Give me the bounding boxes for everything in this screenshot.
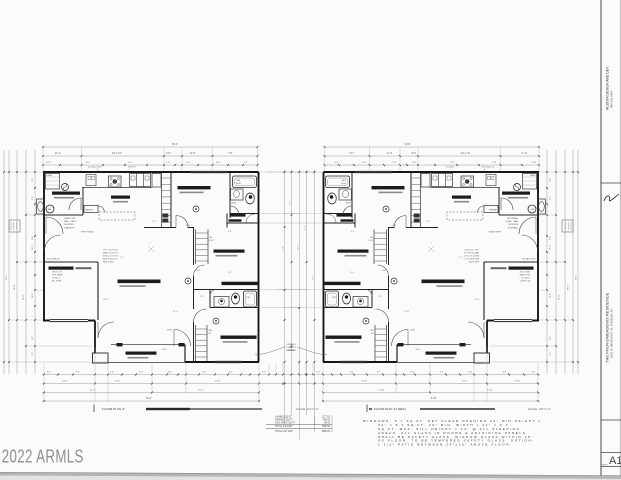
svg-text:© 2022 ARMLS: © 2022 ARMLS	[0, 446, 84, 467]
svg-text:3'-0": 3'-0"	[262, 372, 266, 374]
svg-text:12'-4": 12'-4"	[32, 245, 34, 250]
svg-text:5'-6": 5'-6"	[290, 201, 292, 205]
svg-text:5'-2": 5'-2"	[120, 257, 124, 259]
svg-text:LIVABLE SQ.FT.: LIVABLE SQ.FT.	[275, 416, 292, 419]
svg-text:45'-4": 45'-4"	[146, 398, 152, 400]
svg-text:COV. PATIO SQ.FT.: COV. PATIO SQ.FT.	[275, 421, 296, 424]
svg-text:2'-8": 2'-8"	[166, 162, 170, 164]
svg-text:A1: A1	[609, 455, 621, 467]
svg-text:PANTRY: PANTRY	[86, 208, 95, 211]
svg-text:7'-8": 7'-8"	[228, 153, 233, 155]
svg-text:14'-6": 14'-6"	[173, 311, 178, 313]
svg-text:3'-1": 3'-1"	[244, 162, 248, 164]
svg-text:18'-0": 18'-0"	[103, 299, 108, 301]
svg-text:4'-4": 4'-4"	[228, 272, 232, 274]
svg-text:19'-0": 19'-0"	[297, 245, 299, 250]
svg-text:9'-8": 9'-8"	[32, 236, 34, 240]
svg-text:29'-8": 29'-8"	[23, 294, 25, 300]
svg-text:W/UPPER: W/UPPER	[64, 224, 74, 226]
svg-text:5'-4": 5'-4"	[202, 372, 206, 374]
svg-text:LIN: LIN	[209, 237, 213, 239]
svg-text:PREP SPACE: PREP SPACE	[81, 231, 94, 234]
svg-text:8122 W. MEADOWS LN. PHOENIX, A: 8122 W. MEADOWS LN. PHOENIX, AZ	[610, 308, 614, 358]
svg-text:84.00: 84.00	[324, 422, 330, 424]
svg-text:45'-4": 45'-4"	[6, 274, 8, 280]
svg-text:INSUL @ 16"OC: INSUL @ 16"OC	[103, 256, 119, 258]
svg-text:4'-0": 4'-0"	[186, 162, 190, 164]
svg-text:COND. &: COND. &	[52, 278, 61, 280]
svg-text:x: x	[150, 242, 151, 244]
svg-text:4'-6": 4'-6"	[110, 372, 114, 374]
svg-text:ALL PDFS: ALL PDFS	[52, 280, 62, 283]
svg-text:3'-6": 3'-6"	[168, 372, 172, 374]
svg-text:38'-0": 38'-0"	[14, 284, 16, 290]
svg-text:4'-2": 4'-2"	[128, 162, 132, 164]
svg-text:8'-0C: 8'-0C	[209, 240, 214, 242]
svg-text:60x32: 60x32	[236, 183, 241, 185]
svg-text:2'-8": 2'-8"	[152, 221, 156, 223]
svg-text:23'-2": 23'-2"	[198, 390, 204, 392]
svg-text:11'-4": 11'-4"	[55, 153, 61, 155]
svg-text:11'-6": 11'-6"	[190, 153, 196, 155]
svg-text:45'-4": 45'-4"	[172, 143, 178, 146]
svg-text:CABINETS: CABINETS	[64, 226, 75, 229]
svg-text:4'-4": 4'-4"	[228, 231, 232, 233]
svg-text:WH: WH	[209, 330, 213, 332]
svg-text:5'-6": 5'-6"	[32, 196, 34, 200]
svg-text:FLOOR PLAN 'A1'(REV.): FLOOR PLAN 'A1'(REV.)	[374, 407, 406, 411]
svg-text:1177.50: 1177.50	[322, 417, 331, 419]
svg-text:6'-4": 6'-4"	[76, 372, 80, 374]
svg-text:6'-8": 6'-8"	[200, 296, 204, 298]
svg-text:16'-1 1/2": 16'-1 1/2"	[112, 153, 122, 155]
svg-text:3068: 3068	[196, 270, 200, 272]
svg-text:SCALE: 1/8"=1'-0": SCALE: 1/8"=1'-0"	[528, 407, 551, 411]
svg-text:4'-0": 4'-0"	[47, 372, 51, 374]
svg-text:4'-0": 4'-0"	[95, 205, 99, 207]
svg-text:AND R-38 CLG: AND R-38 CLG	[103, 258, 118, 261]
svg-text:4'-2": 4'-2"	[229, 372, 233, 374]
svg-text:WH: WH	[48, 209, 52, 211]
svg-text:OPP. HAND: OPP. HAND	[52, 274, 63, 277]
svg-text:GARAGE SQ.FT.: GARAGE SQ.FT.	[275, 418, 293, 421]
svg-text:LINEN: LINEN	[47, 175, 53, 177]
svg-text:TUB: TUB	[236, 180, 241, 182]
svg-text:9'-8": 9'-8"	[283, 246, 285, 250]
svg-text:459.50: 459.50	[323, 419, 331, 421]
svg-text:4068: 4068	[186, 225, 190, 227]
svg-text:19'-0": 19'-0"	[312, 275, 314, 280]
svg-text:6'-0": 6'-0"	[86, 162, 90, 164]
svg-text:CLRSTY: CLRSTY	[128, 167, 137, 169]
svg-text:FLOOR PLAN 'A': FLOOR PLAN 'A'	[102, 407, 125, 411]
svg-text:WALL CAB &: WALL CAB &	[64, 220, 77, 223]
svg-text:3585.00: 3585.00	[322, 431, 331, 433]
svg-text:UNIT #2 IS: UNIT #2 IS	[52, 272, 63, 274]
svg-text:16070 GAR DR: 16070 GAR DR	[47, 258, 61, 261]
svg-text:SCALE: 1/4"=1'-0": SCALE: 1/4"=1'-0"	[296, 407, 319, 411]
svg-text:6'-8": 6'-8"	[216, 162, 220, 164]
svg-text:SHEET: SHEET	[602, 464, 609, 466]
svg-text:TOTAL S.F./UNIT: TOTAL S.F./UNIT	[275, 425, 293, 428]
svg-text:10'-1": 10'-1"	[46, 162, 52, 164]
svg-text:GARB DISP: GARB DISP	[64, 217, 76, 220]
svg-text:14'-8": 14'-8"	[215, 381, 221, 383]
svg-text:4'-2": 4'-2"	[32, 178, 34, 182]
svg-text:1690.50: 1690.50	[322, 426, 331, 428]
svg-text:WALLS W/ R-13: WALLS W/ R-13	[103, 252, 119, 255]
svg-text:480.555.0454: 480.555.0454	[610, 90, 614, 108]
svg-text:8'-6": 8'-6"	[32, 336, 34, 340]
svg-text:11'-2": 11'-2"	[305, 225, 307, 230]
svg-text:2'-8": 2'-8"	[166, 153, 171, 155]
svg-text:6'-0 SLD GLS: 6'-0 SLD GLS	[88, 167, 101, 169]
svg-text:TYP: 2x4 STUD: TYP: 2x4 STUD	[103, 250, 118, 252]
svg-text:14'-8": 14'-8"	[32, 293, 34, 298]
svg-text:1 1/2" PATIO BETWEEN 24"x36" A: 1 1/2" PATIO BETWEEN 24"x36" ABOVE FLOOR…	[378, 443, 513, 447]
svg-text:PER PLAN: PER PLAN	[103, 261, 114, 264]
svg-text:5'-2": 5'-2"	[139, 372, 143, 374]
svg-text:16'-0": 16'-0"	[115, 381, 121, 383]
svg-text:14'-8": 14'-8"	[62, 381, 68, 383]
svg-text:5'-6": 5'-6"	[32, 352, 34, 356]
svg-text:TOTAL LOT 2087: TOTAL LOT 2087	[275, 430, 294, 433]
